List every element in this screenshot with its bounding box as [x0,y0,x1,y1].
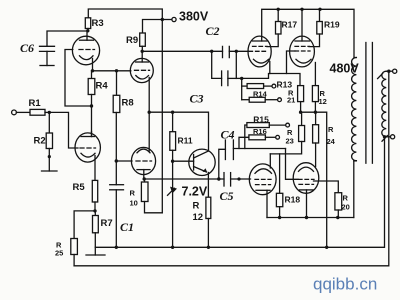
resistor R10 [141,179,162,213]
ground R2 [42,170,58,172]
node base line rail [171,246,174,249]
tube V1 [72,31,99,65]
svg-text:R17: R17 [282,20,298,30]
resistor R7 [93,211,99,255]
svg-text:380V: 380V [179,10,209,24]
svg-text:R15: R15 [253,115,269,125]
resistor R1 [16,109,49,115]
node C5 right [237,177,240,180]
wire secondary bottom tap [385,136,391,138]
svg-text:R8: R8 [122,98,134,109]
svg-text:R1: R1 [29,98,42,109]
svg-text:C4: C4 [221,128,235,142]
node R19 top [318,8,321,11]
resistor R24 [313,112,319,166]
wire 380V terminal lead [162,19,172,21]
resistor R19 [309,9,322,46]
terminal R15 [286,123,290,127]
tube V7 [249,164,276,195]
wire anode bus [267,217,354,219]
node R21 R23 [299,111,302,114]
resistor R21 [298,86,304,113]
node R5 bottom [93,209,96,212]
svg-text:C2: C2 [206,24,220,38]
resistor R2 [46,112,52,171]
svg-text:R14: R14 [253,90,268,99]
node 380V junction [161,18,164,21]
terminal output bottom [391,135,395,139]
wire B+ feed vertical [161,20,163,213]
transformer T1 core [366,43,373,164]
node C4 drop [217,177,220,180]
wire V1 grid down [65,50,92,107]
resistor R25 [71,239,78,266]
wire C6 top to anode node [47,31,88,46]
node R1 out [48,111,51,114]
terminal R16 [276,135,280,139]
wire V8 anode [306,190,308,218]
node bias line [240,77,243,80]
wire anode V2 to C2 [142,50,222,52]
tube V6 [131,112,155,179]
resistor R17 [267,9,281,46]
svg-text:480V: 480V [330,62,360,76]
resistor R9 [140,20,163,52]
wire V2 cathode down [148,78,150,113]
wire R5 node to R25 [74,211,95,239]
wire left B+ rail [88,9,162,20]
resistor R12b [206,197,211,247]
wire V4 cathode to R12 [314,63,316,86]
svg-text:R7: R7 [101,218,113,229]
node R12b rail [207,246,210,249]
wire cathode node to Q1 collector [149,112,208,151]
tube V8 [293,163,319,194]
wire ground rail 1 [95,137,384,248]
wire V3 cathode drop [269,62,271,74]
terminal input [12,110,17,115]
svg-text:R9: R9 [126,35,138,46]
tube V5 [75,132,100,163]
node R11 top [171,111,174,114]
node V8 bus [305,216,308,219]
node secondary bottom [383,135,386,138]
svg-text:R19: R19 [324,20,340,30]
node C3 branch [210,50,213,53]
transformer T1 secondary [382,71,387,137]
resistor R8 [113,71,120,161]
svg-text:20: 20 [342,203,350,212]
svg-text:R: R [193,201,200,212]
svg-text:21: 21 [287,96,295,105]
svg-text:R: R [130,189,136,198]
svg-text:25: 25 [55,249,63,258]
svg-text:R18: R18 [285,194,301,204]
resistor R11 [170,112,176,161]
resistor R5 [92,180,97,211]
capacitor C4 [219,140,286,179]
ground R7 [86,254,105,256]
svg-text:R11: R11 [178,136,193,146]
transformer T1 primary [352,58,357,161]
wire secondary top tap [386,70,392,72]
wire V6 anode line [144,178,224,180]
wire V6 grid [116,160,132,162]
wire bus to primary bottom [353,161,355,218]
node bridge rail [325,246,328,249]
wire V7 anode [266,190,268,217]
node anode V1 [86,29,89,32]
node V1 cathode [91,69,94,72]
wire V7 cathode line [269,154,271,168]
node secondary top [387,70,390,73]
resistor R20 [335,193,342,218]
svg-text:R3: R3 [92,18,104,29]
wire V5 cathode [94,156,96,181]
annotation tick top [378,73,383,78]
node R4 bottom [90,104,93,107]
svg-text:qqibb.cn: qqibb.cn [313,275,377,294]
resistor R4 [88,71,95,106]
svg-text:C1: C1 [120,220,134,234]
resistor R14 [242,97,278,102]
svg-text:C3: C3 [190,92,204,106]
capacitor C6 [40,46,55,51]
node Q1 base [171,160,174,163]
node V3 grid drop [235,50,238,53]
transistor Q1 [173,149,216,175]
svg-text:R: R [343,194,349,203]
wire primary top [354,57,356,59]
resistor R3 [85,18,90,29]
svg-text:24: 24 [327,137,336,146]
wire ground rail 2 [74,71,389,266]
wire R13 R14 left link [241,78,243,99]
terminal output top [393,69,397,73]
resistor R15 [245,123,286,149]
tube V4 [290,9,315,67]
svg-text:R4: R4 [96,81,109,92]
node V4 anode rail [300,8,303,11]
capacitor C3 [212,51,242,85]
svg-text:12: 12 [319,97,327,106]
terminal 380V [172,17,176,21]
wire bias line to R21 [242,74,300,86]
wire V3 grid to bias line [235,51,237,78]
wire bridge to ground drop [301,112,327,247]
tube V3 [248,36,271,67]
wire V4 grid drop [287,51,296,74]
wire V8 g2 to R20 [314,181,339,193]
node R12 R24 [314,111,317,114]
node R20 bus [336,216,339,219]
node R17 top [277,8,280,11]
svg-text:C6: C6 [20,41,34,55]
svg-text:R16: R16 [253,127,267,136]
svg-text:12: 12 [193,212,204,223]
wire Q1 emitter to R12b [207,173,209,198]
wire R3 bottom to anode node [87,29,89,31]
resistor R23 [270,112,304,154]
svg-text:R5: R5 [73,182,86,193]
annotation tick bottom [382,136,387,142]
node V6 anode [143,177,146,180]
capacitor C5 [224,173,251,186]
svg-text:R: R [328,125,334,134]
capacitor C2 [223,46,249,57]
wire cathode bus to V2 grid [93,70,131,72]
node R2 lead [48,155,51,158]
wire primary bottom hook [354,160,356,162]
terminal R14 [278,98,282,102]
resistor R18 [276,154,282,218]
wire C6 bottom [46,51,48,65]
annotation 7.2V arrow [168,187,178,196]
terminal R13 [272,84,276,88]
ground C6 [40,65,54,67]
svg-text:7.2V: 7.2V [182,185,208,199]
wire R1 to V5 grid [49,112,78,148]
resistor R13 [242,84,272,89]
node V2 cathode [148,111,151,114]
svg-text:10: 10 [130,199,138,208]
resistor R16 [239,135,276,149]
wire base node down to ground rail [172,161,174,247]
tube V2 [130,51,153,82]
node C1 rail [115,246,118,249]
svg-text:R2: R2 [34,136,46,147]
resistor R12 [312,86,318,113]
wire right B+ rail [262,9,354,57]
capacitor C1 [110,161,124,247]
node V2 anode [141,50,144,53]
node V6 grid [115,159,118,162]
svg-text:C5: C5 [220,189,234,203]
node R18 bus [278,216,281,219]
wire R4 node to V5 anode [91,106,93,137]
wire C4 to V8 grid [286,149,299,180]
svg-text:23: 23 [286,137,294,146]
wire V1 cathode [92,59,94,71]
node R8 top [115,69,118,72]
